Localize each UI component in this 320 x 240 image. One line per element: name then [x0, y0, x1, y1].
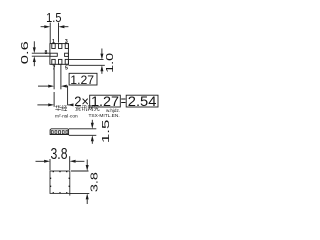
pad 3 top-right: [65, 44, 68, 49]
svg-text:1: 1: [52, 39, 55, 45]
dimension 3.8 vertical: vertical dim line with arrows: [86, 160, 88, 166]
dimension 2x1.27=2.54: left extension line (pad7 center, continues): [53, 92, 55, 107]
package side view slab: [50, 129, 69, 135]
pad 5 bottom-right: [65, 59, 68, 64]
pad 4 right-side: [65, 53, 69, 56]
dimension 2.54: right extension line hanging below 1.27 dim: [67, 86, 69, 105]
package bottom view square: [50, 171, 70, 193]
dimension 2x1.27=2.54: right arrow: [68, 104, 74, 106]
pad 6 bottom-middle: [59, 59, 62, 64]
pad 7 bottom-left: [52, 59, 55, 64]
svg-text:m²·nsl·con: m²·nsl·con: [55, 113, 78, 119]
svg-text:1.5: 1.5: [46, 10, 61, 25]
svg-text:1.0: 1.0: [105, 52, 116, 73]
pin number labels: [44, 39, 68, 71]
dimension 1.5 top: left arrow: [41, 26, 45, 28]
svg-text:0.6: 0.6: [20, 40, 31, 64]
svg-text:1.27: 1.27: [70, 73, 94, 87]
watermark row A chinese chars: [55, 105, 100, 113]
package top view body: [50, 44, 69, 65]
dimension 1.0 right: vertical dim line with arrows: [101, 49, 103, 54]
dimension 1.27 boxed: extension line left (pad7 center): [53, 65, 55, 90]
dimension 1.27 boxed: extension line right (pad6 center): [60, 65, 62, 90]
svg-text:3.8: 3.8: [90, 171, 101, 192]
dimension 2x1.27=2.54: left arrow: [37, 104, 48, 106]
dimension 1.5 top: right arrow: [64, 26, 68, 28]
dimension 0.6 left: extension line upper: [32, 52, 50, 54]
dimension 3.8 horizontal: left arrow: [36, 160, 45, 162]
svg-text:3: 3: [65, 39, 68, 45]
dimension 1.5 top: extension line right: [58, 23, 60, 43]
dimension 1.27 boxed: box: [69, 73, 97, 85]
dimension 3.8 horizontal: right arrow: [76, 160, 85, 162]
dimension 1.5 side: extension line lower: [69, 134, 97, 136]
dimension 3.8 horizontal: extension line left: [49, 159, 51, 170]
svg-text:1.5: 1.5: [101, 119, 112, 143]
bottom view right edge overhang: [69, 193, 71, 195]
dimension 0.6 left: extension line lower: [32, 55, 50, 57]
dimension 0.6 left: vertical dim line with arrows: [33, 41, 35, 47]
dimension 3.8 vertical: extension line top: [71, 170, 89, 172]
side view bump inner white: [52, 131, 68, 133]
dimension 3.8 horizontal: extension line right: [69, 156, 71, 170]
dimension 2x1.27=2.54: box around 2.54: [126, 95, 158, 107]
pad 8 left-side: [50, 53, 57, 56]
watermark row B gray text: [55, 113, 120, 119]
dimension 1.5 top: extension line left: [49, 23, 51, 44]
pad 1 top-left: [52, 44, 55, 49]
svg-text:2.54: 2.54: [128, 93, 157, 109]
dimension 1.27 boxed: left arrow: [38, 85, 48, 87]
bottom view pad tick marks: [50, 171, 70, 193]
svg-text:3.8: 3.8: [51, 146, 68, 163]
side view terminal bumps: [51, 130, 68, 135]
dimension 1.5 side: vertical dim line with arrows: [91, 120, 93, 123]
dimension 1.5 side: extension line upper: [69, 128, 97, 130]
pad 2 top-middle: [59, 44, 62, 49]
dimension 1.0 right: extension line upper: [69, 59, 104, 61]
dimension 1.0 right: extension line lower: [69, 64, 105, 66]
dimension 3.8 vertical: extension line bottom (continuation of square bottom): [70, 192, 90, 194]
svg-text:2×: 2×: [74, 93, 89, 109]
dimension 1.27 boxed: right arrow: [67, 85, 68, 87]
svg-text:=: =: [121, 93, 126, 109]
svg-text:TSX-MITL.EN.: TSX-MITL.EN.: [89, 113, 120, 119]
svg-text:1.27: 1.27: [91, 93, 119, 109]
svg-text:华经: 华经: [55, 105, 67, 113]
svg-text:5: 5: [65, 65, 68, 71]
dimension 2x1.27=2.54: box around 1.27: [90, 95, 121, 107]
